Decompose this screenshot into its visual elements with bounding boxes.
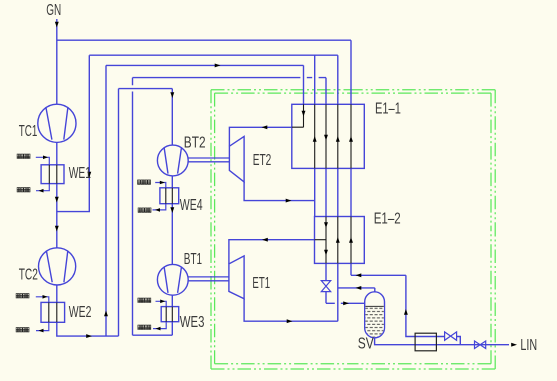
cooler WE3 (161, 307, 179, 322)
wire WE3 down to bottom corner (171, 322, 173, 336)
wire WE4 to BT1 (171, 204, 173, 265)
wire BT2 to WE4 (171, 176, 173, 188)
wire BT1 to WE3 (171, 295, 173, 307)
svg-text:WE2: WE2 (69, 303, 92, 321)
wire vertical x=351 (350, 40, 352, 275)
arrow x=106 up (104, 311, 108, 317)
liquid level line in SV (365, 305, 383, 307)
arrow GN feed down (55, 22, 59, 28)
arrow bottom line right (86, 334, 92, 338)
wire TC2 to WE2 (56, 285, 58, 302)
wire separator bottom LIN line (375, 338, 509, 345)
valve V1 (JT valve, vertical) (321, 281, 330, 292)
compressor TC2 (39, 248, 76, 285)
wire TC1 to WE1 (56, 142, 58, 164)
arrows inside E1-2 (324, 222, 328, 228)
wire WE1 to TC2 (56, 184, 58, 248)
wire vertical x=118.5 (118, 89, 120, 337)
svg-text:E1–2: E1–2 (374, 210, 401, 227)
liquid hatch inside SV (365, 306, 383, 337)
booster BT1 (157, 264, 188, 295)
wire vertical x=132.5 with crossover gap (132, 78, 134, 336)
arrow ET1 outlet right (287, 319, 293, 323)
wire horizontal y=77.6 dashed by crossovers from x=132.5 to x=326 (133, 77, 327, 79)
arrow into SV right (343, 301, 349, 305)
adsorber/filter box (415, 333, 436, 351)
svg-text:WE4: WE4 (180, 196, 203, 214)
arrow SV gas left (356, 286, 362, 290)
black internal passes of E1-2 (315, 217, 352, 264)
svg-text:TC1: TC1 (19, 122, 38, 140)
booster BT2 (157, 145, 188, 176)
caption cooling water out (WE3) (138, 325, 151, 329)
wire vertical x=326 (325, 78, 327, 304)
arrow after WE1 down (55, 197, 59, 203)
arrow LIN out right (511, 343, 517, 347)
arrow adsorber return left (356, 273, 362, 277)
svg-text:TC2: TC2 (19, 265, 38, 283)
compressor TC1 (38, 104, 76, 142)
cooler WE1 (41, 165, 64, 184)
turbine ET2 (229, 136, 244, 182)
wire WE2 to bottom corner and right to x=118.5 (57, 322, 119, 336)
wire horizontal y=88.6 from x=118.5 to x=172.3 (119, 88, 173, 90)
wire separator top gas line y=287.9 (338, 288, 375, 292)
cooler WE2 (41, 302, 65, 322)
separator vessel SV (365, 292, 385, 338)
valve V3 (LIN product valve) (475, 341, 486, 349)
caption cooling water in (WE1) (17, 154, 30, 158)
svg-text:ET2: ET2 (253, 151, 272, 169)
WE1 cooling in/out (36, 157, 50, 190)
svg-text:WE3: WE3 (180, 313, 205, 330)
blue process lines (57, 19, 509, 345)
wire vertical x=303.5 into E1-1 (303, 65, 305, 104)
WE3 cooling in/out (153, 301, 166, 328)
caption cooling water out (WE1) (17, 188, 30, 192)
valve V2 (horizontal, after adsorber) (445, 332, 457, 340)
svg-text:GN: GN (46, 1, 61, 19)
wire ET2 outlet to x=314.5 (244, 182, 314, 201)
svg-text:E1–1: E1–1 (375, 100, 401, 117)
cold box boundary (green dash-dot-dot), outer rect (211, 90, 495, 369)
black internal passes of E1-1 (292, 104, 351, 168)
arrow y=65.4 right (215, 63, 221, 67)
arrow TC2 suction down (55, 226, 59, 232)
svg-text:BT1: BT1 (184, 250, 202, 268)
cooler WE4 (160, 188, 179, 204)
flow arrows (black) (39, 22, 518, 347)
cooling water stubs (blue) (36, 157, 166, 330)
wire ET1 feed from E1-2 (229, 240, 315, 264)
wire ET2 feed from E1-1 (229, 127, 291, 146)
caption cooling water in (WE2) (16, 294, 29, 298)
wire bottom horizontal WE3 line to x=132.5 (133, 334, 173, 336)
cooling water arrows (43, 156, 48, 160)
shaft BT1-ET1 (188, 277, 229, 281)
arrow WE4 outlet down (170, 207, 174, 213)
svg-text:LIN: LIN (520, 336, 537, 353)
wire GN main vertical to TC1 (56, 19, 58, 104)
arrow ET2 outlet right (286, 199, 292, 203)
heat exchanger E1-1 box (292, 104, 365, 168)
wire BT2 inlet from y=88.6 (171, 89, 173, 146)
caption cooling water in (WE4) (138, 180, 151, 184)
arrow x=405.9 up (404, 309, 408, 315)
turbine ET1 (229, 256, 244, 299)
shaft BT2-ET2 (188, 158, 229, 162)
caption cooling water out (WE2) (16, 328, 29, 332)
arrows inside E1-1 (302, 111, 306, 117)
tiny cooling water captions (16, 154, 151, 332)
caption cooling water out (WE4) (138, 208, 151, 212)
wire top horizontal y=40 from GN line to x=351 (57, 39, 351, 41)
svg-text:ET1: ET1 (252, 274, 270, 292)
arrow ET2 feed left (262, 125, 268, 129)
arrow ET1 feed left (262, 238, 268, 242)
wire horizontal y=65.4 from x=106 to x=303.5 (106, 64, 304, 66)
wire E1-2 to adsorber loop y=275.3 (351, 275, 415, 336)
svg-text:BT2: BT2 (184, 133, 206, 151)
WE4 cooling in/out (153, 183, 166, 210)
black segments inside coolers (49, 165, 173, 322)
wire horizontal y=55 from x=89.3 to x=337.8 (89, 54, 337, 56)
wire y=303.3 valve to separator with crossover gap (326, 302, 365, 304)
svg-text:SV: SV (358, 334, 375, 352)
WE2 cooling in/out (36, 297, 49, 331)
caption cooling water in (WE3) (138, 298, 151, 302)
wire vertical x=89.3 recycle to TC2 suction, junction at (56.8,211.6) (57, 55, 90, 211)
wire vertical x=106 medium pressure (105, 65, 107, 336)
wire vertical x=337.8 (337, 55, 339, 321)
arrow BT2 inlet down (170, 92, 174, 98)
svg-text:WE1: WE1 (69, 164, 91, 182)
cold box boundary inner rect (215, 93, 491, 364)
wire vertical x=314.7 (314, 55, 316, 216)
wire adsorber to valve and down (415, 337, 461, 345)
heat exchanger E1-2 box (315, 217, 365, 264)
wire ET1 outlet to x=337.8 riser (244, 299, 338, 321)
arrow recycle down on x=89.3 (87, 172, 91, 178)
